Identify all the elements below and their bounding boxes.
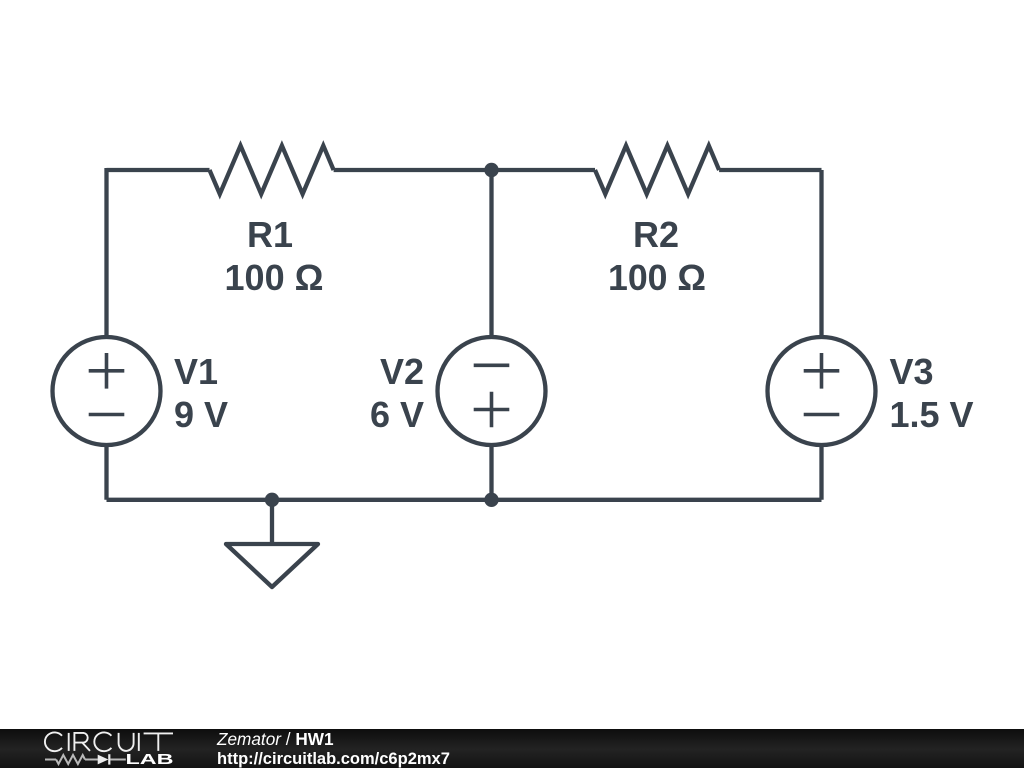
svg-text:LAB: LAB [126, 752, 174, 768]
wire V3 bottom lead [819, 445, 823, 500]
svg-text:100 Ω: 100 Ω [225, 257, 324, 298]
wire top rail: R1 to node A [334, 168, 492, 172]
wire bottom rail [107, 498, 822, 502]
ground [226, 544, 318, 587]
CircuitLab logo diode triangle [98, 755, 109, 765]
svg-text:100 Ω: 100 Ω [608, 257, 706, 298]
voltage source V3 [768, 337, 876, 445]
svg-text:9 V: 9 V [174, 394, 228, 435]
svg-text:1.5 V: 1.5 V [890, 394, 974, 435]
wire ground stub [270, 500, 274, 544]
wire V2 bottom lead [489, 445, 493, 500]
wire V2 top lead [489, 170, 493, 338]
wire V1 top lead [104, 168, 108, 338]
svg-text:V1: V1 [174, 351, 218, 392]
svg-text:V3: V3 [890, 351, 934, 392]
CircuitLab logo wire with resistor and diode [45, 755, 126, 764]
wire top rail: R2 to V3 [719, 168, 821, 172]
CircuitLab logo diode cathode bar [108, 754, 110, 764]
wire top rail: V1 to R1 [107, 168, 210, 172]
svg-text:R1: R1 [247, 214, 293, 255]
resistor R1 [210, 146, 334, 194]
voltage source V1 [53, 337, 161, 445]
svg-text:R2: R2 [633, 214, 679, 255]
node junction A (top of V2) [484, 163, 498, 177]
footer bar [0, 729, 1024, 768]
CircuitLab logo wordmark CIRCUIT (hand-drawn thin letters) [45, 732, 173, 751]
svg-text:http://circuitlab.com/c6p2mx7: http://circuitlab.com/c6p2mx7 [217, 750, 450, 768]
node junction at ground [265, 493, 279, 507]
wire top rail: node A to R2 [492, 168, 596, 172]
voltage source V2 [438, 337, 546, 445]
svg-text:6 V: 6 V [370, 394, 424, 435]
node junction at bottom of V2 [484, 493, 498, 507]
resistor R2 [595, 146, 719, 194]
wire V1 bottom lead [104, 445, 108, 500]
svg-text:Zemator / HW1: Zemator / HW1 [216, 729, 334, 749]
svg-text:V2: V2 [380, 351, 424, 392]
wire V3 top lead [819, 170, 823, 338]
